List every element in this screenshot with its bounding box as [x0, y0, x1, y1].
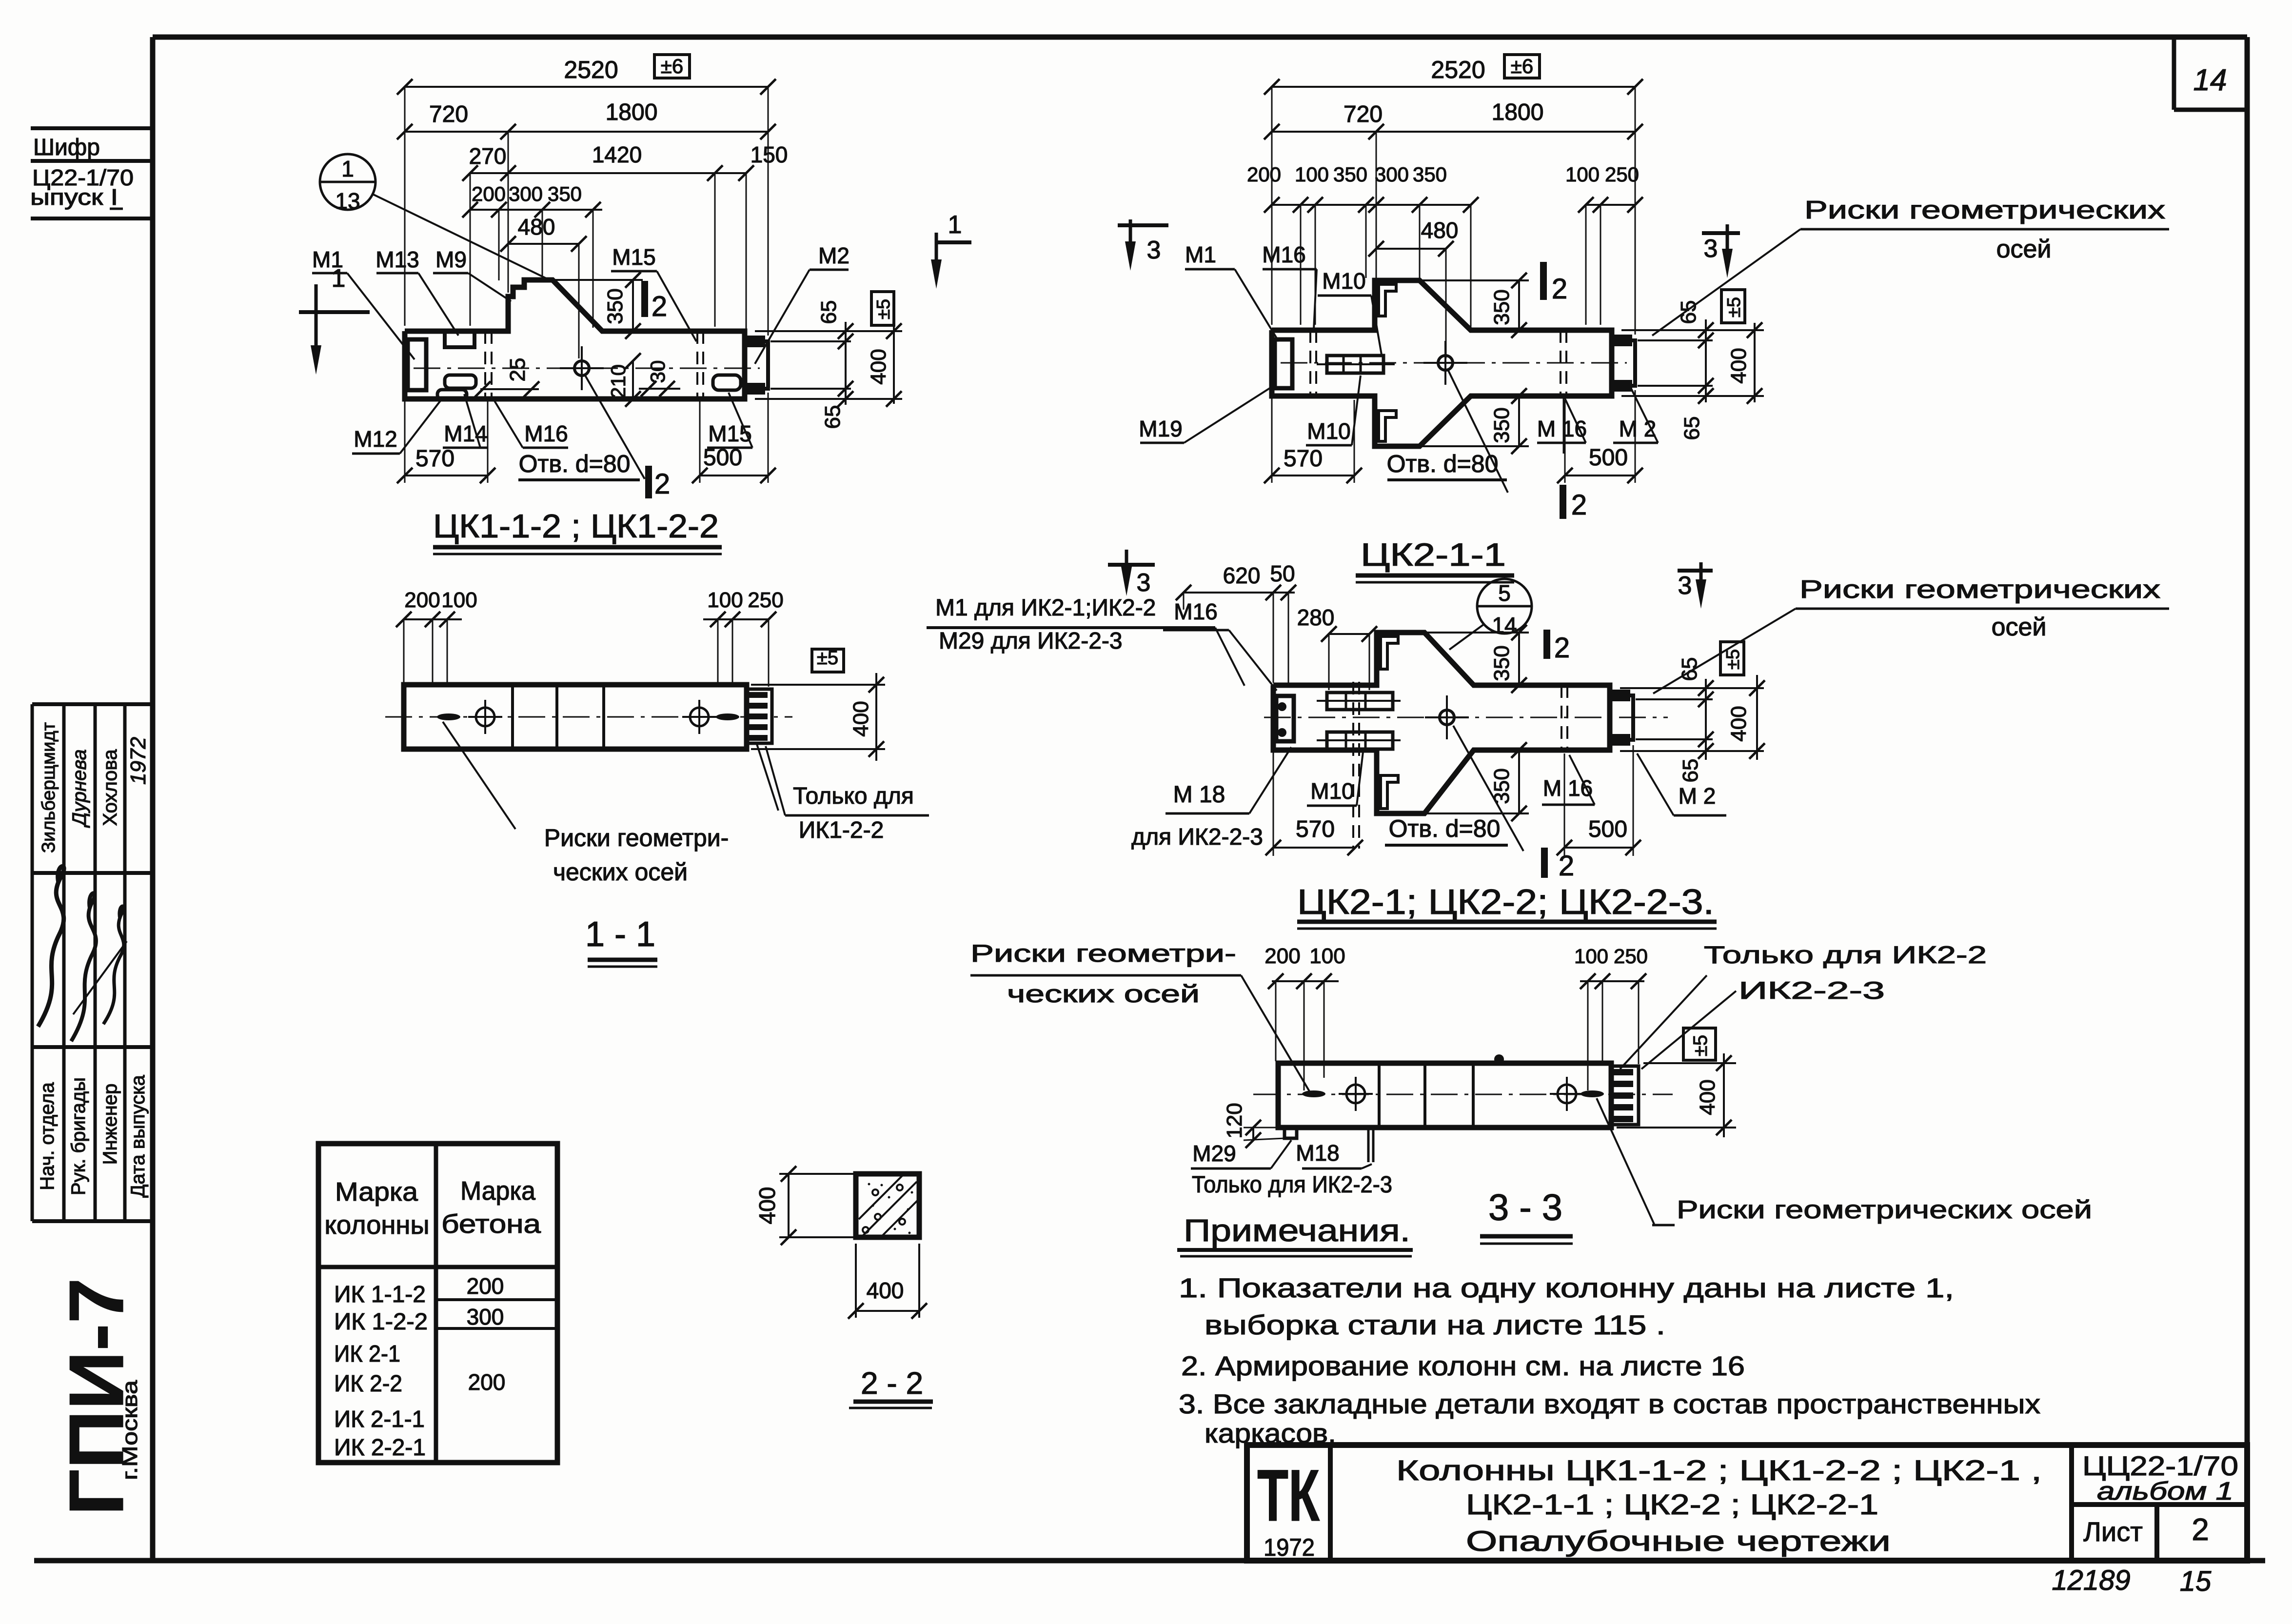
section mark 3 right B: [1702, 231, 1740, 235]
dim 280 C: [1329, 633, 1369, 635]
view 1-1 dims 100 250: [703, 618, 769, 620]
dim 2520 pm6 B: [1272, 86, 1635, 88]
dim 210 A: [632, 361, 634, 399]
svg-text:Примечания.: Примечания.: [1184, 1213, 1410, 1248]
note 1 line 2: [1205, 1309, 1665, 1340]
svg-text:Только для ИК2-2-3: Только для ИК2-2-3: [1192, 1172, 1392, 1198]
svg-text:100: 100: [441, 588, 477, 612]
sheet frame border: [153, 35, 2247, 40]
notes title Primechaniya: [1184, 1213, 1410, 1248]
label M13: [375, 247, 419, 272]
label riski geom osey 3-3 right: [1677, 1196, 2092, 1224]
label M10 C: [1310, 778, 1354, 804]
svg-text:альбом 1: альбом 1: [2097, 1477, 2233, 1505]
view 1-1 bar outline: [404, 685, 747, 749]
svg-text:ЦК1-1-2 ; ЦК1-2-2: ЦК1-1-2 ; ЦК1-2-2: [433, 508, 719, 545]
dim row 200 100 350 300 350 100 250 B: [1272, 204, 1471, 206]
view 1-1 serrated console: [747, 689, 772, 743]
svg-text:2: 2: [1554, 632, 1570, 664]
title CK1-1-2 CK1-2-2: [433, 508, 719, 545]
svg-text:350: 350: [1490, 289, 1514, 325]
view 3-3 bar outline: [1278, 1063, 1611, 1128]
svg-text:13: 13: [335, 188, 360, 214]
svg-text:Только для: Только для: [793, 783, 914, 809]
svg-text:200: 200: [472, 182, 506, 205]
svg-text:Только для ИК2-2: Только для ИК2-2: [1704, 941, 1987, 969]
view 3-3 serrated console: [1611, 1066, 1639, 1125]
detail circle 5-14: [1477, 579, 1532, 634]
title 3-3: [1488, 1187, 1562, 1228]
section mark 3 right C: [1678, 569, 1713, 573]
label dlya IK2-2-3 C: [1131, 824, 1263, 850]
label Otv d80 C: [1389, 815, 1501, 842]
detail M14 plate: [445, 375, 476, 388]
svg-text:ческих осей: ческих осей: [553, 858, 688, 886]
dim 480 A: [508, 243, 579, 245]
svg-text:2: 2: [654, 468, 670, 500]
view 3-3 target right: [1558, 1085, 1576, 1103]
svg-text:М16: М16: [524, 421, 568, 446]
svg-text:Нач. отдела: Нач. отдела: [37, 1082, 58, 1190]
label M29 3-3: [1192, 1141, 1236, 1166]
label M16 B top: [1262, 242, 1305, 267]
detail M12 plate: [437, 390, 467, 399]
dim 500 C: [1564, 847, 1633, 849]
svg-text:400: 400: [1727, 348, 1751, 383]
label M16 A: [524, 421, 568, 446]
label Otv d80 B: [1387, 450, 1499, 477]
dim 270 1420 150 A: [470, 172, 746, 174]
svg-text:М10: М10: [1307, 418, 1350, 444]
dim 500 B: [1565, 475, 1635, 476]
label M2 C: [1679, 783, 1716, 809]
svg-text:ТК: ТК: [1257, 1454, 1320, 1536]
svg-text:100: 100: [1565, 163, 1600, 186]
svg-text:200: 200: [404, 588, 440, 612]
svg-text:100: 100: [707, 588, 743, 612]
svg-text:Риски геометрических осей: Риски геометрических осей: [1677, 1196, 2092, 1224]
svg-text:М1: М1: [1185, 242, 1216, 267]
svg-text:2: 2: [652, 291, 667, 322]
svg-text:200: 200: [1247, 163, 1281, 186]
detail M1 channel: [408, 339, 426, 390]
detail M10 rod bottom C: [1327, 732, 1393, 749]
svg-text:350: 350: [548, 182, 582, 205]
svg-text:200: 200: [467, 1273, 504, 1299]
svg-text:Колонны ЦК1-1-2 ; ЦК1-2-2 ;: Колонны ЦК1-1-2 ; ЦК1-2-2 ; ЦК2-1 ,: [1396, 1455, 2042, 1486]
svg-text:100: 100: [1574, 945, 1608, 968]
svg-text:±5: ±5: [1690, 1035, 1711, 1056]
view 3-3 riska lens right: [1581, 1090, 1604, 1097]
svg-text:3: 3: [1704, 235, 1718, 263]
column CK2-1-1 outline: [1272, 280, 1612, 446]
view 3-3 centerline: [1253, 1094, 1673, 1095]
svg-text:2520: 2520: [1431, 56, 1485, 83]
svg-text:350: 350: [1413, 163, 1447, 186]
svg-text:ЦК2-1-1: ЦК2-1-1: [1361, 536, 1506, 573]
svg-text:±5: ±5: [1724, 297, 1744, 317]
svg-text:М10: М10: [1322, 268, 1365, 294]
svg-text:400: 400: [1696, 1079, 1719, 1115]
svg-text:М12: М12: [354, 426, 397, 452]
svg-text:М14: М14: [444, 421, 487, 446]
svg-text:50: 50: [1270, 561, 1295, 586]
svg-text:Отв. d=80: Отв. d=80: [1387, 450, 1499, 477]
view 1-1 riska lens left: [437, 713, 460, 720]
section 2-2 dim 400 left: [788, 1174, 790, 1237]
label M1 dlya IK2-1 IK2-2: [935, 595, 1156, 621]
svg-text:М15: М15: [612, 244, 655, 270]
svg-text:250: 250: [1614, 945, 1648, 968]
svg-text:ИК2-2-3: ИК2-2-3: [1739, 977, 1885, 1004]
svg-text:400: 400: [754, 1187, 780, 1225]
stamp table grid: [31, 704, 34, 1221]
hidden plate M16 right dashed B: [1560, 330, 1561, 396]
svg-text:280: 280: [1297, 605, 1335, 630]
view 3-3 dims 100 250: [1580, 980, 1644, 982]
svg-text:Дурнева: Дурнева: [69, 749, 90, 828]
svg-text:1800: 1800: [1492, 99, 1544, 125]
svg-text:3: 3: [1137, 569, 1151, 597]
hidden plate M15 dashed: [696, 331, 698, 399]
centerline B: [1281, 362, 1627, 364]
svg-text:350: 350: [1490, 407, 1514, 443]
svg-text:2: 2: [1571, 489, 1587, 521]
svg-text:500: 500: [1588, 816, 1627, 842]
svg-text:Хохлова: Хохлова: [99, 749, 121, 826]
svg-text:М 2: М 2: [1679, 783, 1716, 809]
svg-text:65: 65: [821, 405, 845, 429]
svg-text:500: 500: [703, 445, 742, 471]
svg-text:Опалубочные чертежи: Опалубочные чертежи: [1466, 1525, 1891, 1557]
svg-text:1972: 1972: [126, 737, 150, 785]
dim 30 A: [639, 388, 680, 390]
svg-text:3. Все закладные детали вход: 3. Все закладные детали входят в состав …: [1179, 1388, 2040, 1419]
svg-text:М1 для ИК2-1;ИК2-2: М1 для ИК2-1;ИК2-2: [935, 595, 1156, 621]
svg-text:350: 350: [1490, 645, 1514, 681]
column CK2-1 outline: [1273, 633, 1610, 813]
label tolko dlya IK2-2-3 3-3: [1192, 1172, 1392, 1198]
svg-text:Риски геометри-: Риски геометри-: [970, 940, 1236, 967]
label riski top right C: [1799, 575, 2160, 604]
hole otv d80: [574, 361, 589, 376]
label tolko dlya IK2-2 3-3 right: [1704, 941, 1987, 969]
svg-text:400: 400: [1727, 706, 1751, 741]
svg-text:±6: ±6: [1511, 55, 1533, 78]
title block drawing name: [1396, 1455, 2042, 1486]
title CK2-1-1: [1361, 536, 1506, 573]
detail M15 bottom plate: [713, 375, 741, 390]
column CK1-1-2 outline: [405, 280, 745, 399]
svg-text:30: 30: [646, 360, 669, 383]
svg-text:65: 65: [1680, 416, 1704, 440]
view 1-1 dividers: [511, 685, 514, 749]
label M16 C right: [1543, 775, 1593, 801]
section mark 1 right: [935, 240, 971, 244]
svg-text:2. Армирование колонн см. на: 2. Армирование колонн см. на листе 16: [1181, 1350, 1745, 1381]
title 2-2: [861, 1366, 923, 1401]
dim 720 1800 B: [1272, 131, 1635, 133]
svg-text:осей: осей: [1996, 235, 2052, 263]
view 3-3 top dot: [1494, 1054, 1504, 1064]
svg-text:500: 500: [1589, 445, 1628, 471]
svg-text:400: 400: [867, 1278, 904, 1303]
svg-text:210: 210: [607, 364, 630, 398]
svg-text:25: 25: [506, 358, 530, 382]
detail M1 channel B: [1275, 339, 1292, 388]
view 3-3 dim 120: [1252, 1128, 1254, 1140]
logo GPI-7: [54, 1278, 139, 1516]
view 1-1 dims 200 100: [404, 618, 462, 620]
title block list cell: [2083, 1516, 2143, 1547]
svg-text:М16: М16: [1262, 242, 1305, 267]
svg-text:15: 15: [2180, 1565, 2212, 1597]
view 3-3 riska lens left: [1302, 1090, 1325, 1097]
svg-text:ыпуск I: ыпуск I: [30, 184, 118, 210]
right side dims C 65 400 65: [1620, 687, 1764, 689]
label M18 C: [1173, 782, 1225, 808]
label M29 dlya IK2-2-3: [939, 628, 1123, 654]
centerline C: [1264, 717, 1668, 718]
svg-text:ИК 2-2: ИК 2-2: [334, 1371, 402, 1397]
label M1 B: [1185, 242, 1216, 267]
dim 500 A: [700, 475, 768, 476]
svg-text:1800: 1800: [606, 99, 658, 125]
view 3-3 dividers: [1378, 1063, 1381, 1128]
stamp signatures: [38, 866, 64, 1027]
svg-text:1 - 1: 1 - 1: [585, 915, 655, 954]
detail M10 rod top C: [1327, 693, 1393, 710]
view 1-1 centerline: [385, 716, 792, 718]
label riski geometr osey 1-1: [544, 824, 729, 852]
svg-text:ИК 2-2-1: ИК 2-2-1: [334, 1435, 426, 1461]
svg-text:480: 480: [518, 214, 555, 239]
svg-text:200: 200: [1265, 944, 1300, 968]
section mark 2 top A: [641, 281, 648, 317]
dim 350 slope A: [553, 279, 643, 281]
svg-text:Инженер: Инженер: [99, 1084, 121, 1165]
section mark 3 left B: [1118, 223, 1168, 227]
svg-text:720: 720: [429, 101, 468, 127]
svg-text:ЦК2-1-1 ; ЦК2-2 ; ЦК2-2-1: ЦК2-1-1 ; ЦК2-2 ; ЦК2-2-1: [1466, 1489, 1878, 1521]
svg-text:М29: М29: [1192, 1141, 1236, 1166]
svg-text:2: 2: [1559, 850, 1574, 882]
svg-text:М29 для ИК2-2-3: М29 для ИК2-2-3: [939, 628, 1123, 654]
svg-text:±6: ±6: [661, 55, 683, 78]
right side dims B 65 400 65: [1621, 329, 1764, 331]
label M19: [1139, 416, 1182, 441]
svg-text:ЦК2-1; ЦК2-2; ЦК2-2-3.: ЦК2-1; ЦК2-2; ЦК2-2-3.: [1297, 883, 1714, 922]
svg-text:Отв. d=80: Отв. d=80: [519, 450, 631, 477]
dim 570 C: [1273, 847, 1355, 849]
detail M18 channel C: [1276, 696, 1294, 741]
hole otv d80 B: [1438, 356, 1453, 370]
view 1-1 riska target right: [690, 708, 709, 726]
label M16 B bottom: [1537, 416, 1587, 441]
svg-text:350: 350: [603, 288, 627, 324]
label M15 top: [612, 244, 655, 270]
label M14: [444, 421, 487, 446]
view 1-1 riska lens right: [716, 713, 739, 720]
hidden plate M16 left dashed B: [1309, 330, 1311, 396]
svg-text:М9: М9: [435, 247, 467, 272]
title block frame: [1247, 1445, 2247, 1561]
svg-text:250: 250: [748, 588, 783, 612]
detail M10 rod B: [1327, 356, 1383, 373]
section 2-2 dim 400 bottom: [856, 1310, 919, 1312]
label M10 B bottom: [1307, 418, 1350, 444]
view 1-1 dim 400 right: [751, 684, 885, 686]
svg-text:М10: М10: [1310, 778, 1354, 804]
svg-text:400: 400: [867, 349, 890, 384]
section mark 2 top C: [1543, 630, 1550, 659]
svg-text:250: 250: [1605, 163, 1639, 186]
dim 720 1800 A: [405, 131, 508, 133]
label tolko dlya IK1-2-2: [793, 783, 914, 809]
svg-text:М2: М2: [818, 243, 850, 268]
svg-text:выборка стали на листе 115 .: выборка стали на листе 115 .: [1205, 1309, 1665, 1340]
svg-text:570: 570: [415, 446, 454, 472]
svg-text:620: 620: [1223, 563, 1261, 588]
svg-text:ИК 2-1-1: ИК 2-1-1: [334, 1406, 425, 1432]
svg-text:2520: 2520: [564, 56, 618, 83]
dim 25 A: [480, 388, 539, 390]
detail M13 notch: [445, 331, 474, 347]
hidden plate M16 dashed: [484, 331, 486, 399]
svg-text:14: 14: [1492, 613, 1517, 638]
svg-text:Риски геометрических: Риски геометрических: [1804, 196, 2165, 224]
label M16 C left: [1174, 599, 1217, 624]
svg-text:150: 150: [751, 142, 788, 167]
title block code: [2082, 1450, 2238, 1481]
svg-text:Марка: Марка: [460, 1176, 536, 1206]
svg-text:ИК1-2-2: ИК1-2-2: [799, 817, 884, 843]
svg-text:М16: М16: [1174, 599, 1217, 624]
column CK2-1 end console: [1610, 695, 1633, 740]
dim 350 slope top B: [1420, 279, 1529, 281]
svg-text:бетона: бетона: [441, 1209, 541, 1239]
svg-text:±5: ±5: [873, 299, 894, 319]
section 2-2 square: [856, 1174, 919, 1237]
svg-text:65: 65: [817, 300, 841, 324]
dim 350 slope top C: [1424, 632, 1529, 634]
svg-text:М1: М1: [312, 247, 343, 272]
note 3: [1179, 1388, 2040, 1419]
hole otv d80 C: [1440, 710, 1454, 725]
svg-text:3: 3: [1678, 572, 1692, 600]
right side dims A 65 400 65: [755, 330, 902, 332]
svg-text:Лист: Лист: [2083, 1516, 2143, 1547]
svg-text:Отв. d=80: Отв. d=80: [1389, 815, 1501, 842]
view 3-3 target left: [1346, 1085, 1365, 1103]
note 3 line 2: [1205, 1418, 1336, 1448]
svg-text:5: 5: [1498, 580, 1511, 606]
label riski top right B: [1804, 196, 2165, 224]
code box Shifr: [31, 126, 153, 130]
svg-text:300: 300: [1375, 163, 1409, 186]
sheet number box with 14: [2172, 39, 2176, 110]
svg-text:М13: М13: [375, 247, 419, 272]
svg-text:300: 300: [509, 182, 543, 205]
svg-text:480: 480: [1421, 218, 1459, 243]
svg-text:65: 65: [1679, 759, 1702, 783]
view 1-1 riska target left: [476, 708, 494, 726]
svg-text:3 - 3: 3 - 3: [1488, 1187, 1562, 1228]
svg-text:1972: 1972: [1264, 1534, 1315, 1561]
svg-text:300: 300: [467, 1304, 504, 1329]
title block TK logo: [1257, 1454, 1320, 1536]
svg-text:Шифр: Шифр: [33, 135, 100, 160]
svg-text:Зильберщмидт: Зильберщмидт: [39, 722, 59, 853]
detail hook top B: [1379, 284, 1396, 316]
section mark 2 bottom A: [645, 466, 652, 498]
svg-text:Риски геометрических: Риски геометрических: [1799, 575, 2160, 604]
svg-text:осей: осей: [1992, 613, 2047, 641]
centerline A: [414, 368, 760, 369]
dim 350 slope bottom B: [1420, 445, 1529, 447]
label M9: [435, 247, 467, 272]
svg-text:ИК 1-1-2: ИК 1-1-2: [334, 1282, 426, 1307]
svg-text:Марка: Марка: [335, 1177, 418, 1207]
svg-text:Дата выпуска: Дата выпуска: [127, 1074, 149, 1197]
svg-text:100: 100: [1309, 944, 1345, 968]
dim 200 300 350 A: [470, 209, 602, 211]
dim 350 slope bottom C: [1424, 812, 1529, 814]
label riski geometr 3-3 left: [970, 940, 1236, 967]
logo city Moscow: [118, 1380, 142, 1480]
hidden plate dashed C left: [1352, 682, 1354, 849]
svg-text:Риски геометри-: Риски геометри-: [544, 824, 729, 852]
label M18 3-3: [1296, 1140, 1339, 1166]
svg-text:М19: М19: [1139, 416, 1182, 441]
label M1: [312, 247, 343, 272]
grade table frame: [318, 1144, 557, 1463]
svg-text:2 - 2: 2 - 2: [861, 1366, 923, 1401]
svg-text:1: 1: [341, 156, 354, 181]
svg-text:ЦЦ22-1/70: ЦЦ22-1/70: [2082, 1450, 2238, 1481]
svg-text:ИК 1-2-2: ИК 1-2-2: [334, 1309, 428, 1335]
view 3-3 dim 400 right: [1643, 1062, 1736, 1064]
label M10 B top: [1322, 268, 1365, 294]
section mark 1 left: [299, 310, 370, 314]
dim 2520 pm6 A: [405, 86, 768, 88]
svg-text:570: 570: [1284, 446, 1323, 472]
stamp names: [39, 722, 59, 853]
handwritten numbers bottom: [2052, 1565, 2130, 1596]
note 1: [1179, 1272, 1954, 1303]
svg-text:3: 3: [1147, 236, 1161, 264]
detail circle 1-13: [320, 154, 375, 210]
section 2-2 hatch: [859, 1176, 902, 1219]
stamp titles: [37, 1082, 58, 1190]
svg-text:14: 14: [2193, 63, 2227, 97]
svg-text:1: 1: [948, 211, 962, 239]
dim 620 50 C: [1184, 592, 1295, 594]
dim 570 B: [1272, 475, 1354, 476]
grade table rows: [334, 1282, 426, 1307]
view 3-3 M29 tab: [1284, 1128, 1297, 1138]
svg-text:2: 2: [2192, 1512, 2209, 1547]
section mark 2 bottom C: [1541, 848, 1548, 878]
svg-text:±5: ±5: [1723, 649, 1743, 670]
dim 480 B: [1376, 248, 1446, 250]
svg-text:270: 270: [469, 143, 507, 169]
svg-text:350: 350: [1333, 163, 1367, 186]
svg-text:400: 400: [849, 701, 873, 736]
svg-text:1. Показатели на одну колон: 1. Показатели на одну колонну даны на ли…: [1179, 1272, 1954, 1303]
grade table header: [335, 1177, 418, 1207]
column CK2-1-1 end console: [1612, 340, 1635, 386]
